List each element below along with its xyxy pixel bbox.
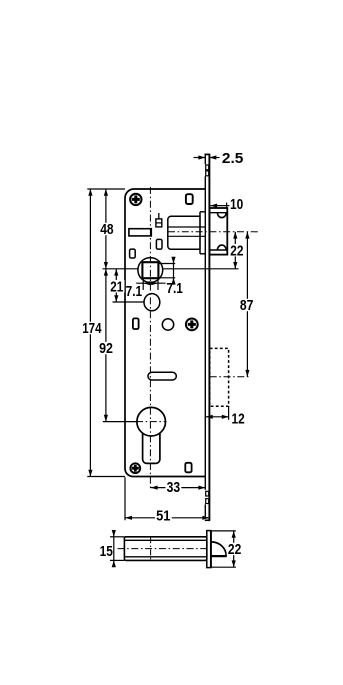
- fixing screw bottom-left: [130, 463, 140, 473]
- deadbolt tip extension line: [228, 406, 230, 420]
- label 87: [239, 299, 255, 311]
- dimension line 2.5 right: [210, 157, 220, 159]
- dimension line 22 plan: [233, 531, 235, 567]
- cylinder centermark: [136, 421, 167, 423]
- faceplate bottom screw slot upper: [206, 491, 209, 496]
- extension line plan case top: [110, 536, 124, 538]
- extension line square right: [157, 278, 159, 290]
- deadbolt hidden outline: [210, 348, 229, 406]
- plan view case: [124, 537, 206, 561]
- extension line plan latch bottom: [212, 566, 236, 568]
- plan latch bevel arc: [211, 542, 226, 556]
- dimension line 33: [151, 487, 206, 489]
- extension line square left: [142, 278, 144, 290]
- assembly screw middle-right: [186, 319, 198, 331]
- dimension line 7.1 vertical: [173, 257, 175, 284]
- faceplate top screw slot upper: [206, 165, 209, 170]
- label 174: [81, 322, 103, 334]
- dimension line 7.1 horizontal: [136, 282, 165, 284]
- label 22: [229, 244, 245, 256]
- svg-text:48: 48: [100, 222, 113, 238]
- dimension line 12: [206, 416, 229, 418]
- svg-text:15: 15: [100, 544, 113, 560]
- latch bolt tail: [168, 216, 200, 249]
- faceplate left edge upper: [204, 154, 206, 164]
- plan faceplate bar: [207, 531, 211, 568]
- faceplate top cap: [205, 153, 211, 155]
- svg-text:33: 33: [167, 480, 181, 496]
- svg-text:7.1: 7.1: [166, 281, 183, 297]
- cylinder hole circle: [137, 407, 166, 436]
- fixing screw top-left: [130, 194, 141, 205]
- dimension line 92: [105, 269, 107, 422]
- hole bottom-right: [185, 463, 191, 473]
- latch flange edge: [199, 212, 201, 254]
- extension line case bottom: [87, 476, 125, 478]
- cylinder hole stem: [143, 433, 160, 463]
- plan centerline: [118, 548, 211, 550]
- svg-text:174: 174: [82, 321, 101, 337]
- round hole middle: [162, 319, 173, 330]
- svg-text:2.5: 2.5: [222, 151, 244, 167]
- latch bolt head: [209, 208, 227, 255]
- auxiliary oval hole: [144, 294, 160, 311]
- faceplate bottom screw slot lower: [206, 499, 209, 504]
- deadbolt centerline: [210, 376, 250, 378]
- extension line follower centre: [103, 268, 138, 270]
- latch flange bottom: [200, 253, 205, 255]
- extension line plan case bottom: [110, 559, 124, 561]
- svg-text:10: 10: [230, 197, 243, 213]
- label 92: [98, 342, 114, 354]
- extension line square top: [159, 263, 175, 265]
- hole left mid-upper: [130, 249, 136, 258]
- dimension line 174: [89, 189, 91, 477]
- label 51: [155, 509, 172, 521]
- spring clip body: [156, 219, 162, 227]
- latch bevel arc bottom: [217, 245, 226, 250]
- dimension line 2.5 left: [194, 157, 206, 159]
- label 48: [99, 223, 115, 235]
- square spindle hole: [142, 262, 158, 278]
- faceplate left edge lower: [204, 504, 206, 518]
- vertical centerline: [149, 187, 151, 491]
- extension line case left lower: [124, 477, 126, 520]
- dimension line 87: [246, 232, 248, 377]
- hole top-right: [186, 194, 193, 204]
- plan cylinder axis line: [150, 537, 152, 560]
- svg-text:87: 87: [240, 298, 254, 314]
- hole left middle: [133, 318, 139, 329]
- horizontal slot: [148, 372, 176, 380]
- faceplate top screw slot lower: [206, 171, 209, 176]
- extension line case top: [87, 188, 125, 190]
- dimension line 15: [113, 531, 115, 566]
- faceplate left edge middle: [204, 176, 206, 490]
- spring clip pin: [158, 213, 160, 219]
- dimension line 21: [115, 269, 117, 302]
- dimension line 22: [234, 232, 236, 269]
- extension line plan latch top: [212, 530, 236, 532]
- latch tail inner line lower: [169, 235, 206, 237]
- handle follower circle: [138, 258, 163, 283]
- stop bar slot: [129, 229, 151, 236]
- faceplate bottom cap: [205, 519, 210, 521]
- dimension line 51: [125, 517, 209, 519]
- latch bevel arc top: [217, 213, 226, 218]
- extension line aux hole centre: [113, 301, 145, 303]
- extension line cylinder centre: [103, 421, 137, 423]
- latch flange top: [200, 211, 205, 213]
- dimension line 10: [210, 205, 229, 207]
- dimension line 48: [105, 189, 107, 269]
- svg-text:22: 22: [228, 542, 241, 558]
- svg-text:51: 51: [156, 508, 170, 524]
- svg-text:12: 12: [232, 412, 245, 428]
- label 22 plan: [227, 543, 243, 555]
- label 21: [109, 280, 124, 292]
- extension line follower centre right: [163, 268, 239, 270]
- svg-text:22: 22: [230, 243, 243, 259]
- latch head bevel bottom line: [209, 249, 227, 251]
- spring clip middle line: [156, 222, 162, 224]
- plan case inner wall bottom: [125, 556, 207, 558]
- faceplate right edge: [208, 154, 210, 520]
- svg-text:92: 92: [99, 341, 113, 357]
- latch centerline: [168, 231, 260, 233]
- latch head bevel top line: [209, 212, 227, 214]
- svg-text:7.1: 7.1: [126, 284, 143, 300]
- lock case outline: [125, 189, 205, 477]
- latch tail inner line upper: [169, 226, 206, 228]
- extension line latch tip: [226, 203, 228, 209]
- plan latch bevel base: [211, 555, 227, 557]
- extension line square bottom: [159, 277, 175, 279]
- label 33: [166, 481, 182, 493]
- plan case inner wall top: [125, 539, 207, 541]
- svg-text:21: 21: [110, 279, 123, 295]
- hole below latch: [156, 239, 162, 249]
